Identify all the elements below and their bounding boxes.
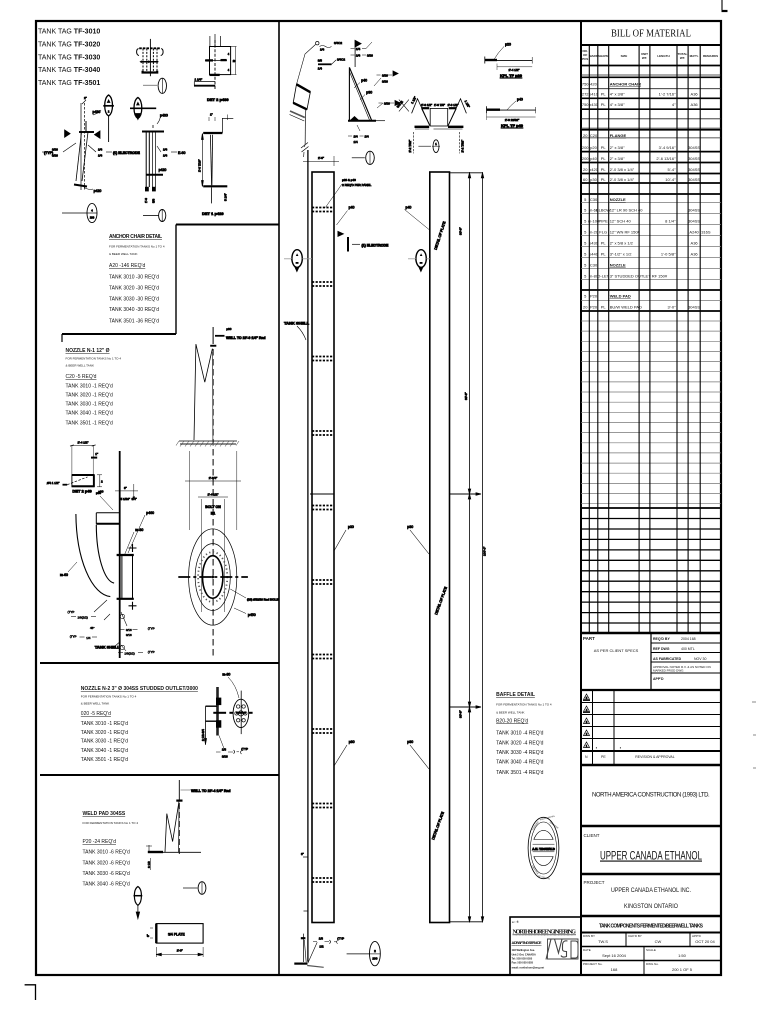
svg-text:m-80: m-80 [135, 528, 143, 532]
svg-text:m-60: m-60 [60, 573, 68, 577]
svg-text:2: 2 [108, 110, 110, 114]
svg-text:DET 1 p420: DET 1 p420 [202, 211, 224, 216]
svg-text:1/4: 1/4 [318, 67, 323, 71]
svg-text:2: 2 [374, 949, 376, 953]
svg-text:TANK 3010 -30 REQ'd: TANK 3010 -30 REQ'd [109, 275, 159, 281]
svg-text:FLANGE: FLANGE [610, 133, 627, 138]
svg-text:1/8: 1/8 [319, 937, 324, 941]
svg-text:5: 5 [584, 294, 587, 299]
svg-text:5: 5 [584, 263, 587, 268]
svg-text:2'-3/4": 2'-3/4" [209, 476, 217, 480]
svg-text:KINGSTON ONTARIO: KINGSTON ONTARIO [624, 903, 678, 910]
svg-text:60: 60 [583, 177, 588, 182]
svg-text:PL: PL [601, 102, 607, 107]
svg-text:5 1/16": 5 1/16" [121, 497, 130, 501]
svg-text:TANK 3040 -30 REQ'd: TANK 3040 -30 REQ'd [109, 307, 159, 313]
svg-text:200: 200 [582, 156, 589, 161]
svg-text:1/4: 1/4 [98, 154, 103, 158]
svg-text:304SS: 304SS [688, 167, 700, 172]
svg-text:1'-4 1/2": 1'-4 1/2" [509, 68, 520, 72]
svg-text:ELBOW: ELBOW [596, 208, 611, 213]
svg-text:PL: PL [601, 252, 607, 257]
svg-text:E-60: E-60 [178, 151, 185, 155]
svg-text:TANK TAG TF-3010: TANK TAG TF-3010 [38, 29, 100, 36]
svg-text:LENGTH: LENGTH [657, 54, 669, 58]
svg-text:3/4 PLATE: 3/4 PLATE [168, 933, 185, 937]
svg-text:PL: PL [601, 145, 607, 150]
svg-text:200 1 OF 5: 200 1 OF 5 [672, 967, 693, 972]
svg-text:Unit 2 Ont. CANADA: Unit 2 Ont. CANADA [512, 954, 536, 957]
svg-text:12" SCH 40: 12" SCH 40 [610, 219, 632, 224]
svg-text:2'-0": 2'-0" [177, 949, 183, 953]
svg-text:3" STUDDED OUTLET RF 150#: 3" STUDDED OUTLET RF 150# [610, 274, 668, 279]
svg-text:PIPE: PIPE [599, 219, 608, 224]
svg-text:NOZZLE: NOZZLE [610, 263, 626, 268]
svg-text:(1) ELECTRODE: (1) ELECTRODE [362, 243, 390, 247]
svg-text:2'-0 7/16": 2'-0 7/16" [198, 159, 202, 172]
svg-text:PL: PL [601, 167, 607, 172]
svg-text:TANK 3040 -1 REQ'd: TANK 3040 -1 REQ'd [81, 748, 128, 754]
svg-text:PL: PL [601, 177, 607, 182]
svg-text:BOLT ON: BOLT ON [205, 505, 221, 509]
svg-text:3/16: 3/16 [382, 74, 388, 78]
svg-text:5: 5 [584, 197, 587, 202]
svg-text:2: 2 [101, 480, 103, 484]
svg-text:3/4C2: 3/4C2 [337, 58, 345, 62]
svg-text:TANK TAG TF-3030: TANK TAG TF-3030 [38, 55, 100, 62]
svg-text:ANCHOR CHAIR DETAIL: ANCHOR CHAIR DETAIL [109, 234, 162, 240]
svg-text:A20 -146 REQ'd: A20 -146 REQ'd [109, 263, 145, 269]
svg-text:DET 2 p430: DET 2 p430 [207, 97, 229, 102]
svg-text:200: 200 [372, 956, 377, 960]
svg-text:TANK COMPONENTS FERMENTED/BEER: TANK COMPONENTS FERMENTED/BEERWELL TANKS [599, 924, 704, 930]
svg-text:SCALE: SCALE [646, 948, 656, 952]
svg-text:(1) ELECTRODE: (1) ELECTRODE [113, 151, 141, 155]
svg-text:304SS: 304SS [688, 177, 700, 182]
svg-text:1'-4 1/2": 1'-4 1/2" [208, 493, 219, 497]
svg-text:1/4: 1/4 [98, 148, 103, 152]
svg-text:O-LET: O-LET [597, 274, 609, 279]
svg-text:KPL TF p20: KPL TF p20 [500, 73, 523, 78]
svg-text:(TYP: (TYP [241, 747, 248, 751]
svg-text:p420: p420 [94, 189, 102, 193]
svg-text:SIZE: SIZE [621, 54, 628, 58]
svg-text:1/4: 1/4 [163, 154, 168, 158]
svg-text:168: 168 [611, 967, 618, 972]
svg-text:p30: p30 [366, 91, 372, 95]
svg-text:TANK 3040 -4 REQ'd: TANK 3040 -4 REQ'd [496, 760, 543, 766]
svg-text:FOR FERMENTATION TANKS No 1 TO: FOR FERMENTATION TANKS No 1 TO 4 [66, 357, 122, 361]
svg-text:p430: p430 [93, 110, 101, 114]
svg-text:p30: p30 [349, 740, 355, 744]
svg-text:TANK TAG TF-3020: TANK TAG TF-3020 [38, 42, 100, 49]
svg-text:p30: p30 [348, 525, 354, 529]
svg-text:p450: p450 [248, 613, 256, 617]
svg-text:TANK 3010 -6 REQ'd: TANK 3010 -6 REQ'd [83, 850, 130, 856]
svg-text:FOR FERMENTATION TANKS No 1 TO: FOR FERMENTATION TANKS No 1 TO 4 [496, 703, 552, 707]
svg-text:PL: PL [601, 241, 607, 246]
svg-text:5: 5 [584, 219, 587, 224]
svg-text:TANK 3020 -1 REQ'd: TANK 3020 -1 REQ'd [66, 393, 113, 399]
svg-text:1/4: 1/4 [356, 54, 361, 58]
svg-text:DWG No.: DWG No. [646, 962, 659, 966]
svg-text:UPPER CANADA ETHANOL: UPPER CANADA ETHANOL [600, 851, 702, 863]
svg-text:400 MTL: 400 MTL [681, 647, 695, 651]
svg-text:FOR FERMENTATION TANKS No 1 TO: FOR FERMENTATION TANKS No 1 TO 4 [109, 245, 165, 249]
svg-text:020 -5 REQ'd: 020 -5 REQ'd [81, 711, 111, 717]
svg-text:4" x 3/8": 4" x 3/8" [610, 102, 625, 107]
svg-text:2004 168: 2004 168 [681, 637, 696, 641]
svg-text:4: 4 [228, 69, 230, 72]
svg-text:9": 9" [124, 486, 127, 490]
svg-text:304SS: 304SS [688, 145, 700, 150]
svg-text:TANK 3040 -6 REQ'd: TANK 3040 -6 REQ'd [83, 881, 130, 887]
svg-text:P20: P20 [590, 294, 598, 299]
svg-text:8 1/4": 8 1/4" [665, 219, 676, 224]
svg-text:(TYP: (TYP [148, 627, 155, 631]
svg-text:12" WN RF 150#: 12" WN RF 150# [610, 230, 641, 235]
svg-text:2'-0 3/8 x 1/4": 2'-0 3/8 x 1/4" [610, 167, 635, 172]
svg-text:B20-20 REQ'd: B20-20 REQ'd [496, 719, 528, 725]
svg-text:3/16: 3/16 [126, 633, 132, 637]
svg-text:100'-0": 100'-0" [483, 547, 487, 556]
svg-text:FLG: FLG [599, 230, 607, 235]
svg-text:2'-6 13/16": 2'-6 13/16" [656, 156, 676, 161]
svg-text:304SS: 304SS [688, 208, 700, 213]
svg-text:WT.: WT. [642, 56, 647, 60]
svg-text:1": 1" [210, 113, 213, 117]
svg-text:1'-0 5/8": 1'-0 5/8" [661, 252, 676, 257]
svg-text:TANK 3501 -36 REQ'd: TANK 3501 -36 REQ'd [109, 318, 159, 324]
svg-text:REF DWG: REF DWG [653, 647, 670, 651]
svg-text:1'-0 1/2": 1'-0 1/2" [421, 103, 432, 107]
svg-text:3'-0": 3'-0" [668, 305, 677, 310]
svg-text:TANK SHELL: TANK SHELL [95, 645, 121, 650]
svg-text:TANK 3010 -1 REQ'd: TANK 3010 -1 REQ'd [66, 384, 113, 390]
svg-text:APP'D: APP'D [692, 934, 702, 938]
svg-text:2 REQ'D PER PANEL: 2 REQ'D PER PANEL [342, 183, 372, 187]
svg-text:5: 5 [584, 241, 587, 246]
svg-text:MAT'L: MAT'L [690, 54, 699, 58]
svg-text:REVISION & APPROVAL: REVISION & APPROVAL [635, 755, 674, 759]
svg-text:TANK 3020 -6 REQ'd: TANK 3020 -6 REQ'd [83, 860, 130, 866]
svg-text:3": 3" [301, 852, 304, 856]
svg-text:1/4: 1/4 [354, 135, 359, 139]
svg-text:TANK 3030 -1 REQ'd: TANK 3030 -1 REQ'd [66, 401, 113, 407]
svg-text:1:50: 1:50 [678, 953, 687, 958]
svg-text:PCS: PCS [582, 57, 588, 61]
svg-text:TANK 3010 -4 REQ'd: TANK 3010 -4 REQ'd [496, 731, 543, 737]
svg-text:p420: p420 [159, 168, 167, 172]
svg-text:TANK SHELL: TANK SHELL [284, 321, 310, 326]
svg-text:200: 200 [582, 145, 589, 150]
svg-text:& BEER WELL TANK: & BEER WELL TANK [109, 252, 137, 256]
svg-text:AS FABRICATED: AS FABRICATED [653, 657, 682, 661]
svg-text:MARKED PROD DWG: MARKED PROD DWG [653, 669, 684, 673]
svg-text:CW: CW [655, 939, 662, 944]
svg-text:PROJECT: PROJECT [584, 880, 605, 885]
svg-text:30'-6": 30'-6" [464, 392, 468, 400]
svg-text:P20 -24 REQ'd: P20 -24 REQ'd [83, 839, 117, 845]
svg-text:NORTHSHORE ENGINEERING: NORTHSHORE ENGINEERING [513, 929, 577, 936]
svg-text:p30: p30 [226, 327, 231, 331]
svg-text:2" x 5/8 x 1/2: 2" x 5/8 x 1/2 [610, 241, 634, 246]
svg-text:PE: PE [601, 755, 606, 759]
svg-text:CHK'D BY: CHK'D BY [628, 934, 642, 938]
svg-text:DETAIL OF PLATE: DETAIL OF PLATE [431, 811, 445, 841]
svg-text:1 1/2": 1 1/2" [410, 96, 417, 105]
svg-text:5: 5 [584, 252, 587, 257]
svg-text:m-80: m-80 [222, 673, 230, 677]
svg-text:4: 4 [228, 53, 230, 56]
svg-text:p420: p420 [589, 167, 599, 172]
svg-text:●○ ®: ●○ ® [512, 920, 519, 924]
svg-text:email: northshore@eng.net: email: northshore@eng.net [512, 967, 545, 970]
svg-text:C30: C30 [590, 197, 598, 202]
svg-text:TANK 3501 -4 REQ'd: TANK 3501 -4 REQ'd [496, 770, 543, 776]
svg-text:3/8: 3/8 [318, 59, 323, 63]
svg-text:2'-0 3/8 x 1/4": 2'-0 3/8 x 1/4" [610, 177, 635, 182]
svg-text:PART: PART [583, 636, 595, 641]
svg-text:(10) Ø11/16 Rad HOLE: (10) Ø11/16 Rad HOLE [247, 598, 279, 602]
svg-text:m-20: m-20 [589, 230, 599, 235]
svg-text:TANK 3030 -30 REQ'd: TANK 3030 -30 REQ'd [109, 296, 159, 302]
svg-text:1/4: 1/4 [86, 636, 91, 640]
svg-text:3/16: 3/16 [222, 755, 228, 759]
svg-text:NOZZLE N-2 3" Ø 304SS STUDDED: NOZZLE N-2 3" Ø 304SS STUDDED OUTLET/300… [81, 686, 198, 692]
svg-text:304SS: 304SS [688, 219, 700, 224]
svg-text:1/4: 1/4 [354, 140, 359, 144]
svg-text:p30: p30 [407, 740, 413, 744]
svg-text:420: 420 [590, 82, 597, 87]
svg-text:4" x 3/8": 4" x 3/8" [610, 92, 625, 97]
svg-text:193 Wellington Ave.: 193 Wellington Ave. [512, 949, 536, 952]
svg-text:2'-0": 2'-0" [318, 156, 324, 160]
svg-text:PL: PL [601, 156, 607, 161]
svg-text:3 1/2-3/4: 3 1/2-3/4 [201, 729, 205, 741]
svg-text:3/16: 3/16 [384, 102, 390, 106]
svg-text:2" x 3/8": 2" x 3/8" [610, 145, 625, 150]
svg-text:P20: P20 [590, 305, 598, 310]
svg-text:KPL TF p40: KPL TF p40 [501, 123, 524, 128]
svg-text:WELD PAD: WELD PAD [610, 294, 631, 299]
svg-text:A.N. TIDSWALD: A.N. TIDSWALD [532, 847, 555, 851]
svg-text:4": 4" [672, 102, 676, 107]
svg-text:3": 3" [146, 934, 150, 937]
svg-text:1 1/2": 1 1/2" [464, 100, 471, 109]
svg-text:45°: 45° [90, 626, 95, 630]
svg-text:A36: A36 [691, 241, 699, 246]
svg-text:1'-2 7/16": 1'-2 7/16" [659, 92, 676, 97]
svg-text:AS PER CLIENT SPECS: AS PER CLIENT SPECS [594, 648, 639, 653]
svg-text:p30: p30 [590, 177, 597, 182]
svg-text:TANK 3020 -4 REQ'd: TANK 3020 -4 REQ'd [496, 741, 543, 747]
svg-text:B1: B1 [211, 512, 216, 516]
svg-text:3/16: 3/16 [382, 80, 388, 84]
svg-text:200: 200 [90, 216, 95, 220]
svg-text:TANK 3030 -4 REQ'd: TANK 3030 -4 REQ'd [496, 750, 543, 756]
svg-text:p20: p20 [590, 145, 597, 150]
svg-text:UPPER CANADA ETHANOL INC.: UPPER CANADA ETHANOL INC. [611, 887, 691, 894]
svg-text:A240: A240 [689, 230, 699, 235]
svg-text:NORTH AMERICA CONSTRUCTION (19: NORTH AMERICA CONSTRUCTION (1993) LTD. [592, 793, 710, 799]
svg-text:TANK 3501 -1 REQ'd: TANK 3501 -1 REQ'd [66, 421, 113, 427]
svg-text:304SS: 304SS [688, 156, 700, 161]
svg-text:p30: p30 [96, 491, 101, 495]
svg-text:12" LR 90 SCH 40: 12" LR 90 SCH 40 [610, 208, 644, 213]
svg-text:(TYP: (TYP [68, 610, 75, 614]
svg-text:(TYP: (TYP [148, 650, 155, 654]
svg-text:p20 & p40: p20 & p40 [342, 178, 356, 182]
svg-text:TANK 3010 -1 REQ'd: TANK 3010 -1 REQ'd [81, 721, 128, 727]
svg-text:DETAIL OF PLATE: DETAIL OF PLATE [434, 586, 448, 616]
svg-text:1/4: 1/4 [356, 47, 361, 51]
svg-text:p430: p430 [160, 114, 168, 118]
svg-text:2'-2 7/32": 2'-2 7/32" [408, 140, 412, 153]
svg-text:TANK 3030 -6 REQ'd: TANK 3030 -6 REQ'd [83, 871, 130, 877]
svg-text:REQ'D BY: REQ'D BY [653, 637, 670, 641]
svg-text:p40: p40 [349, 206, 355, 210]
svg-text:NOV 30: NOV 30 [694, 657, 707, 661]
svg-text:p430: p430 [589, 241, 599, 246]
svg-text:TANK 3501 -1 REQ'd: TANK 3501 -1 REQ'd [81, 757, 128, 763]
svg-text:TANK TAG TF-3501: TANK TAG TF-3501 [38, 80, 100, 87]
svg-text:p30: p30 [407, 525, 413, 529]
svg-text:1'-0: 1'-0 [144, 198, 148, 203]
svg-text:3/16: 3/16 [126, 628, 132, 632]
svg-text:4: 4 [91, 209, 93, 213]
svg-text:p40: p40 [517, 97, 523, 101]
svg-text:p40: p40 [361, 79, 367, 83]
svg-text:20: 20 [583, 167, 588, 172]
svg-text:20: 20 [583, 305, 588, 310]
svg-text:316S: 316S [701, 230, 711, 235]
svg-text:.: . [620, 745, 621, 749]
svg-text:WT.: WT. [680, 56, 685, 60]
svg-text:3"-1/2" x 1/2: 3"-1/2" x 1/2 [610, 252, 633, 257]
svg-text:10'-4": 10'-4" [665, 177, 676, 182]
svg-text:ANCHOR CHAIR: ANCHOR CHAIR [610, 82, 641, 87]
svg-text:Ø4 1 1/2": Ø4 1 1/2" [47, 481, 60, 485]
svg-text:CLIENT: CLIENT [584, 833, 600, 838]
svg-text:OCT 20 04: OCT 20 04 [695, 939, 715, 944]
svg-text:A DRAFTING SERVICE: A DRAFTING SERVICE [512, 940, 542, 945]
svg-text:1/8(2/2): 1/8(2/2) [78, 616, 88, 620]
svg-text:DETAIL OF PLATE: DETAIL OF PLATE [434, 220, 447, 250]
svg-text:Sept 16 2004: Sept 16 2004 [602, 953, 627, 958]
svg-text:TANK 3020 -1 REQ'd: TANK 3020 -1 REQ'd [81, 730, 128, 736]
svg-text:1": 1" [95, 452, 98, 456]
svg-text:p460: p460 [146, 511, 154, 515]
svg-text:DWN BY: DWN BY [583, 934, 595, 938]
svg-text:TANK 3020 -30 REQ'd: TANK 3020 -30 REQ'd [109, 286, 159, 292]
svg-text:WELL TO 23'-0 1/4" Rad: WELL TO 23'-0 1/4" Rad [226, 336, 266, 340]
svg-text:C20 -5 REQ'd: C20 -5 REQ'd [66, 374, 97, 380]
svg-text:PL: PL [601, 92, 607, 97]
svg-text:1/8: 1/8 [222, 748, 227, 752]
svg-text:5: 5 [584, 274, 587, 279]
svg-text:p440: p440 [589, 252, 599, 257]
svg-text:p40: p40 [590, 156, 597, 161]
svg-text:(TYP: (TYP [70, 635, 77, 639]
svg-text:5: 5 [584, 208, 587, 213]
svg-text:C30: C30 [590, 263, 598, 268]
svg-text:TANK TAG TF-3040: TANK TAG TF-3040 [38, 67, 100, 74]
svg-text:3/16: 3/16 [367, 54, 373, 58]
svg-text:BILL OF MATERIAL: BILL OF MATERIAL [611, 28, 691, 40]
svg-text:1/2: 1/2 [319, 944, 324, 948]
svg-text:5'-4": 5'-4" [668, 167, 677, 172]
svg-text:FOR FERMENTATION TANKS No 1 TO: FOR FERMENTATION TANKS No 1 TO 4 [81, 694, 137, 698]
svg-text:2": 2" [84, 96, 87, 100]
svg-text:TANK 3040 -1 REQ'd: TANK 3040 -1 REQ'd [66, 411, 113, 417]
svg-text:1/8(2/2): 1/8(2/2) [124, 652, 134, 656]
svg-text:PL: PL [601, 305, 607, 310]
svg-text:304SS: 304SS [688, 305, 700, 310]
svg-text:N: N [585, 755, 588, 759]
svg-text:3'-4 9/16": 3'-4 9/16" [659, 145, 676, 150]
svg-text:PROJECT No.: PROJECT No. [583, 962, 603, 966]
svg-text:1/4: 1/4 [163, 148, 168, 152]
svg-text:3/16: 3/16 [52, 154, 58, 158]
svg-text:5 1/4": 5 1/4" [224, 193, 228, 201]
svg-text:WELL TO 23'-4 1/4" Rad: WELL TO 23'-4 1/4" Rad [191, 789, 231, 793]
svg-text:1'-0 7/8": 1'-0 7/8" [434, 103, 445, 107]
svg-text:DET 2 p40: DET 2 p40 [72, 489, 92, 494]
svg-text:A36: A36 [691, 92, 699, 97]
svg-text:Fax: 555-555-5555: Fax: 555-555-5555 [512, 962, 534, 965]
svg-text:p40: p40 [406, 206, 412, 210]
svg-text:Tel: 555-555-5555: Tel: 555-555-5555 [512, 958, 533, 961]
svg-text:BAFFLE DETAIL: BAFFLE DETAIL [496, 692, 535, 698]
svg-text:2'-0 23/32": 2'-0 23/32" [505, 118, 519, 122]
svg-text:p430: p430 [589, 102, 599, 107]
svg-text:& BEER WELL TANK: & BEER WELL TANK [66, 364, 94, 368]
svg-text:PROFESSIONAL: PROFESSIONAL [539, 814, 556, 821]
svg-text:3/4C2: 3/4C2 [334, 41, 342, 45]
svg-text:1'-4 1/2": 1'-4 1/2" [78, 441, 89, 445]
svg-text:5/8: 5/8 [151, 198, 155, 203]
svg-text:OF ONTARIO: OF ONTARIO [538, 875, 551, 881]
svg-text:1/4: 1/4 [365, 135, 370, 139]
svg-text:30'-6": 30'-6" [459, 710, 463, 718]
svg-text:A36: A36 [691, 102, 699, 107]
svg-text:750: 750 [582, 82, 589, 87]
svg-text:1 1/4": 1 1/4" [195, 78, 203, 82]
svg-text:2" x 3/8": 2" x 3/8" [610, 156, 625, 161]
svg-text:C20: C20 [590, 133, 598, 138]
svg-text:NOZZLE N-1 12" Ø: NOZZLE N-1 12" Ø [66, 348, 110, 354]
svg-text:NOZZLE: NOZZLE [610, 197, 626, 202]
svg-text:3/16: 3/16 [52, 148, 58, 152]
svg-text:DATE: DATE [583, 948, 591, 952]
svg-text:SHAPE: SHAPE [598, 54, 608, 58]
svg-text:.: . [596, 745, 597, 749]
svg-text:1'-0 1/2": 1'-0 1/2" [448, 103, 459, 107]
svg-text:30'-6": 30'-6" [459, 227, 463, 235]
svg-text:WELD PAD 304SS: WELD PAD 304SS [83, 811, 126, 817]
svg-text:APP'D: APP'D [653, 677, 664, 681]
svg-text:20: 20 [583, 133, 588, 138]
svg-text:2'-2 7/32": 2'-2 7/32" [461, 140, 465, 153]
svg-text:1: 1 [435, 142, 437, 146]
svg-text:(TYP: (TYP [337, 936, 344, 940]
svg-text:BU/W WELD PAD: BU/W WELD PAD [610, 305, 642, 310]
svg-text:10: 10 [233, 60, 236, 63]
svg-text:p410: p410 [589, 92, 599, 97]
svg-text:p20: p20 [505, 43, 511, 47]
svg-text:& BEER WELL TANK: & BEER WELL TANK [496, 711, 524, 715]
